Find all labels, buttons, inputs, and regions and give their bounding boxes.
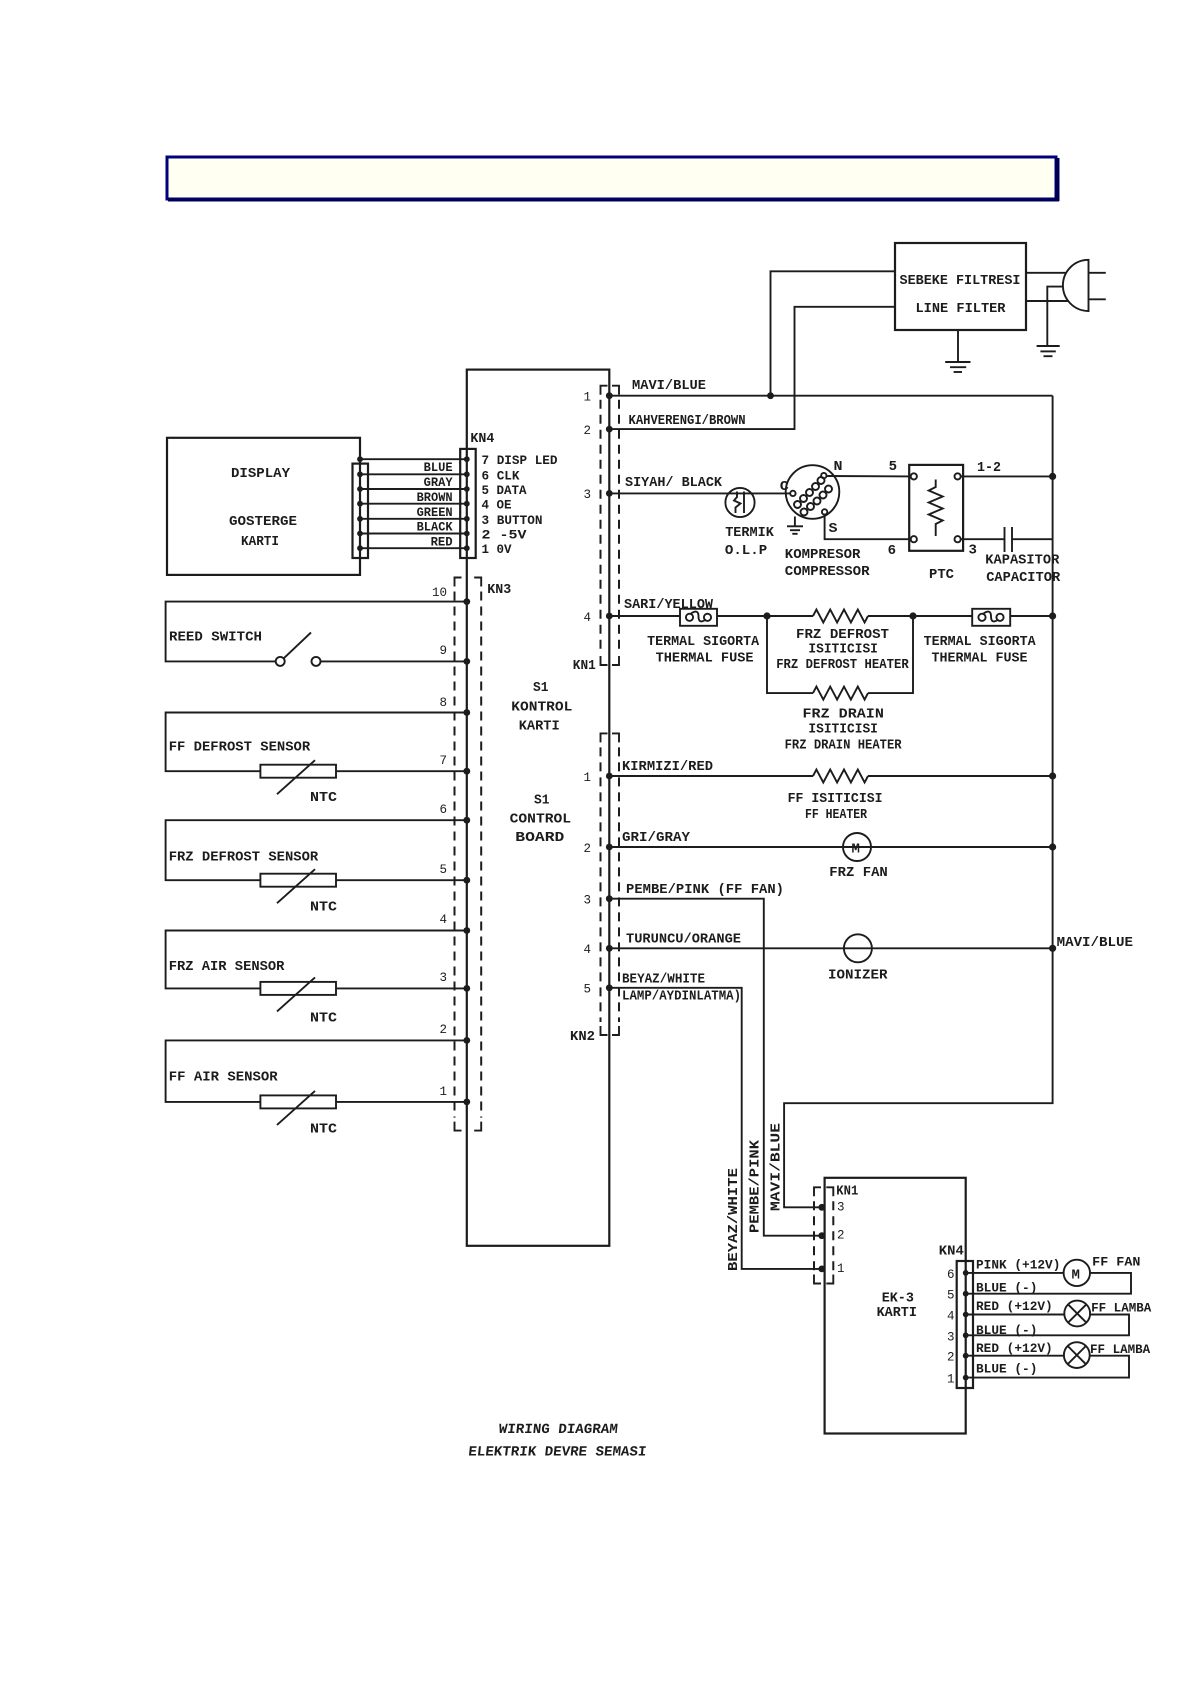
svg-text:3 BUTTON: 3 BUTTON bbox=[482, 513, 543, 528]
display output connector bbox=[353, 464, 369, 558]
svg-text:ISITICISI: ISITICISI bbox=[808, 642, 878, 658]
svg-text:WIRING DIAGRAM: WIRING DIAGRAM bbox=[498, 1422, 619, 1438]
svg-text:6: 6 bbox=[947, 1268, 955, 1282]
connector KN4 box bbox=[460, 449, 476, 558]
svg-text:10: 10 bbox=[432, 586, 447, 600]
svg-text:TERMAL SIGORTA: TERMAL SIGORTA bbox=[647, 634, 760, 650]
wire SIYAH/BLACK pin3 to compressor C bbox=[609, 492, 790, 494]
resistor FRZ DRAIN ISITICISI bbox=[785, 687, 903, 754]
svg-text:9: 9 bbox=[439, 644, 447, 658]
svg-text:ISITICISI: ISITICISI bbox=[808, 722, 878, 738]
wire display pin2 bbox=[360, 533, 467, 535]
svg-text:TURUNCU/ORANGE: TURUNCU/ORANGE bbox=[626, 932, 741, 948]
svg-text:1: 1 bbox=[583, 771, 591, 785]
node rail orange bbox=[1049, 945, 1056, 952]
svg-text:5: 5 bbox=[947, 1289, 955, 1303]
svg-text:C: C bbox=[780, 479, 790, 495]
wire FRZ drain heater branch bbox=[767, 616, 913, 693]
svg-text:8: 8 bbox=[439, 696, 447, 710]
node heater left bbox=[763, 612, 770, 619]
svg-text:FRZ DEFROST HEATER: FRZ DEFROST HEATER bbox=[776, 657, 909, 673]
svg-text:S1: S1 bbox=[533, 680, 549, 696]
svg-text:3: 3 bbox=[947, 1330, 955, 1344]
wire display pin1 RED bbox=[360, 547, 467, 549]
node rail yellow bbox=[1049, 612, 1056, 619]
svg-text:M: M bbox=[1072, 1267, 1080, 1283]
svg-text:RED (+12V): RED (+12V) bbox=[976, 1299, 1053, 1314]
svg-text:2 -5V: 2 -5V bbox=[482, 528, 527, 543]
wire RED +12V to FF lamba 1 bbox=[966, 1314, 1065, 1316]
svg-text:GRAY: GRAY bbox=[424, 475, 453, 490]
KN3 pin numbers bbox=[432, 586, 447, 1099]
thermal fuse 2 bbox=[924, 609, 1037, 667]
connector KN1 EK3 dashed bracket bbox=[814, 1187, 833, 1283]
svg-text:TERMIK: TERMIK bbox=[725, 525, 774, 541]
ground under plug bbox=[1037, 346, 1060, 356]
svg-text:PTC: PTC bbox=[929, 567, 955, 583]
compressor motor bbox=[780, 459, 870, 580]
svg-text:O.L.P: O.L.P bbox=[725, 543, 767, 559]
svg-text:BLUE (-): BLUE (-) bbox=[976, 1323, 1037, 1338]
svg-text:1: 1 bbox=[837, 1262, 845, 1276]
FRZ defrost sensor bbox=[166, 820, 467, 916]
svg-text:BLACK: BLACK bbox=[417, 520, 453, 535]
wire GRI/GRAY pin2 bbox=[609, 846, 1052, 848]
node rail red bbox=[1049, 772, 1056, 779]
svg-text:4: 4 bbox=[439, 913, 447, 927]
svg-text:KN4: KN4 bbox=[939, 1244, 964, 1260]
ground under line filter bbox=[945, 330, 970, 372]
capacitor KAPASITOR bbox=[985, 527, 1060, 586]
wire FF lamba 2 return bbox=[966, 1356, 1129, 1378]
svg-text:TERMAL SIGORTA: TERMAL SIGORTA bbox=[924, 634, 1037, 650]
svg-text:2: 2 bbox=[583, 842, 591, 856]
svg-text:KARTI: KARTI bbox=[241, 534, 279, 550]
svg-text:FF HEATER: FF HEATER bbox=[805, 807, 867, 823]
connector KN1 dashed bracket bbox=[601, 386, 620, 665]
svg-text:FF DEFROST SENSOR: FF DEFROST SENSOR bbox=[169, 740, 311, 756]
svg-text:KAHVERENGI/BROWN: KAHVERENGI/BROWN bbox=[629, 413, 746, 429]
lamp FF LAMBA 2 bbox=[1064, 1342, 1150, 1368]
node blue junction bbox=[767, 392, 774, 399]
connector KN3 dashed bracket bbox=[455, 578, 482, 1131]
ionizer bbox=[828, 934, 888, 983]
wire PEMBE/PINK pin3 to EK3 KN1 pin2 bbox=[609, 899, 822, 1236]
svg-text:IONIZER: IONIZER bbox=[828, 968, 888, 984]
svg-text:GOSTERGE: GOSTERGE bbox=[229, 514, 297, 530]
svg-text:1: 1 bbox=[583, 391, 591, 405]
svg-text:KARTI: KARTI bbox=[519, 719, 560, 735]
FF air sensor bbox=[166, 1040, 467, 1137]
svg-text:5: 5 bbox=[889, 459, 897, 475]
resistor FRZ DEFROST ISITICISI bbox=[776, 610, 909, 674]
svg-text:4: 4 bbox=[583, 943, 591, 957]
svg-text:SIYAH/ BLACK: SIYAH/ BLACK bbox=[625, 475, 723, 491]
svg-text:KN1: KN1 bbox=[573, 658, 596, 674]
svg-text:3: 3 bbox=[837, 1200, 845, 1214]
svg-text:6: 6 bbox=[888, 543, 896, 559]
line filter box bbox=[895, 243, 1026, 330]
svg-text:MAVI/BLUE: MAVI/BLUE bbox=[632, 378, 706, 394]
svg-text:FF LAMBA: FF LAMBA bbox=[1091, 1301, 1151, 1316]
wire fuse1 to node bbox=[717, 615, 813, 617]
motor FRZ FAN bbox=[829, 833, 888, 881]
header bar bbox=[167, 157, 1059, 201]
svg-text:4: 4 bbox=[583, 611, 591, 625]
svg-text:BROWN: BROWN bbox=[417, 490, 453, 505]
connector KN2 dashed bracket bbox=[601, 733, 620, 1035]
svg-text:CAPACITOR: CAPACITOR bbox=[986, 570, 1061, 586]
svg-text:FRZ FAN: FRZ FAN bbox=[829, 865, 888, 881]
svg-text:BLUE (-): BLUE (-) bbox=[976, 1362, 1037, 1377]
svg-text:ELEKTRIK DEVRE SEMASI: ELEKTRIK DEVRE SEMASI bbox=[467, 1445, 647, 1461]
wire display pin5 BROWN bbox=[360, 488, 467, 490]
svg-text:3: 3 bbox=[583, 488, 591, 502]
svg-text:LAMP/AYDINLATMA): LAMP/AYDINLATMA) bbox=[622, 989, 741, 1005]
svg-text:KAPASITOR: KAPASITOR bbox=[985, 553, 1060, 569]
svg-text:BOARD: BOARD bbox=[515, 830, 564, 846]
overload protector TERMIK O.L.P bbox=[725, 488, 775, 559]
svg-text:PEMBE/PINK (FF FAN): PEMBE/PINK (FF FAN) bbox=[626, 882, 784, 898]
KN4 EK3 pins bbox=[963, 1270, 969, 1381]
svg-text:N: N bbox=[834, 459, 843, 475]
svg-text:THERMAL FUSE: THERMAL FUSE bbox=[656, 651, 754, 667]
svg-text:1 0V: 1 0V bbox=[482, 542, 512, 557]
wire display pin3 BLACK bbox=[360, 518, 467, 520]
KN4 EK3 pin numbers bbox=[947, 1268, 955, 1387]
control board label S1 CONTROL BOARD bbox=[510, 793, 571, 846]
wire SARI/YELLOW pin4 bbox=[609, 615, 680, 617]
svg-text:KN1: KN1 bbox=[836, 1184, 858, 1200]
svg-text:FF AIR SENSOR: FF AIR SENSOR bbox=[169, 1070, 278, 1086]
wire KIRMIZI/RED pin1 bbox=[609, 775, 813, 777]
svg-text:2: 2 bbox=[947, 1351, 955, 1365]
wire PTC pin3 to capacitor bbox=[961, 538, 1005, 540]
svg-text:RED: RED bbox=[431, 534, 453, 549]
wire line filter to plug upper bbox=[1026, 272, 1067, 274]
svg-text:FRZ DEFROST SENSOR: FRZ DEFROST SENSOR bbox=[169, 850, 319, 866]
svg-text:4 OE: 4 OE bbox=[482, 498, 512, 513]
wire fuse2 to rail bbox=[1010, 615, 1052, 617]
PTC relay bbox=[888, 459, 1001, 583]
svg-text:6 CLK: 6 CLK bbox=[482, 468, 520, 483]
wire display pin4 GREEN bbox=[360, 503, 467, 505]
wire plug earth tap bbox=[1047, 287, 1063, 346]
wire FF fan return bbox=[966, 1273, 1131, 1294]
svg-text:FRZ DRAIN HEATER: FRZ DRAIN HEATER bbox=[785, 738, 903, 754]
wire FF lamba 1 return bbox=[966, 1315, 1129, 1336]
wire MAVI/BLUE pin1 to right rail bbox=[609, 395, 1052, 397]
svg-text:FRZ AIR SENSOR: FRZ AIR SENSOR bbox=[169, 959, 285, 975]
svg-text:SEBEKE FILTRESI: SEBEKE FILTRESI bbox=[900, 273, 1021, 289]
thermal fuse 1 bbox=[647, 609, 760, 667]
svg-text:5: 5 bbox=[583, 983, 591, 997]
wire compressor S to PTC pin6 bbox=[825, 515, 911, 540]
svg-text:2: 2 bbox=[583, 424, 591, 438]
FF defrost sensor bbox=[166, 713, 467, 807]
KN2 pin numbers bbox=[583, 771, 591, 997]
svg-text:2: 2 bbox=[439, 1023, 447, 1037]
svg-text:KONTROL: KONTROL bbox=[511, 700, 572, 716]
ground under compressor bbox=[787, 517, 803, 534]
reed switch bbox=[166, 602, 467, 666]
svg-text:MAVI/BLUE: MAVI/BLUE bbox=[769, 1123, 785, 1211]
svg-text:FRZ DRAIN: FRZ DRAIN bbox=[803, 707, 884, 723]
node rail/PTC junction bbox=[1049, 473, 1056, 480]
KN3 pins on board edge bbox=[463, 598, 470, 1105]
mains plug bbox=[1063, 260, 1106, 311]
wire PINK +12V to FF fan bbox=[966, 1272, 1064, 1274]
svg-text:PEMBE/PINK: PEMBE/PINK bbox=[748, 1139, 764, 1233]
KN1 pins bbox=[606, 392, 613, 619]
resistor FF ISITICISI bbox=[788, 770, 883, 824]
svg-text:4: 4 bbox=[947, 1310, 955, 1324]
control board S1 box bbox=[467, 370, 610, 1246]
svg-text:KN4: KN4 bbox=[470, 431, 494, 447]
svg-text:1: 1 bbox=[947, 1373, 955, 1387]
wire blue riser to line filter bbox=[771, 271, 896, 395]
svg-text:M: M bbox=[852, 842, 860, 858]
svg-text:DISPLAY: DISPLAY bbox=[231, 466, 291, 482]
wire PTC to right rail top bbox=[961, 475, 1053, 477]
svg-text:3: 3 bbox=[969, 543, 977, 559]
svg-text:KARTI: KARTI bbox=[877, 1305, 917, 1321]
svg-text:KIRMIZI/RED: KIRMIZI/RED bbox=[622, 759, 713, 775]
svg-text:NTC: NTC bbox=[310, 900, 338, 916]
wire compressor N to PTC pin5 bbox=[827, 475, 911, 477]
svg-text:KN2: KN2 bbox=[570, 1029, 595, 1045]
KN1 pin numbers bbox=[583, 391, 591, 626]
svg-text:REED SWITCH: REED SWITCH bbox=[169, 630, 262, 646]
svg-text:KN3: KN3 bbox=[487, 582, 511, 598]
svg-text:1: 1 bbox=[439, 1085, 447, 1099]
svg-text:RED (+12V): RED (+12V) bbox=[976, 1341, 1053, 1356]
svg-text:S: S bbox=[829, 521, 838, 537]
svg-text:5 DATA: 5 DATA bbox=[482, 483, 527, 498]
FRZ air sensor bbox=[166, 931, 467, 1027]
svg-text:COMPRESSOR: COMPRESSOR bbox=[785, 564, 870, 580]
control board label S1 KONTROL KARTI bbox=[511, 680, 572, 735]
KN1 EK3 pins bbox=[818, 1204, 825, 1272]
svg-text:CONTROL: CONTROL bbox=[510, 812, 571, 828]
svg-text:1-2: 1-2 bbox=[977, 460, 1001, 476]
wire TURUNCU/ORANGE pin4 bbox=[609, 947, 1052, 949]
svg-text:MAVI/BLUE: MAVI/BLUE bbox=[1057, 935, 1133, 951]
svg-text:FF FAN: FF FAN bbox=[1092, 1255, 1140, 1270]
motor FF FAN bbox=[1064, 1255, 1141, 1287]
EK-3 board box bbox=[825, 1178, 966, 1434]
wire display pin7 BLUE bbox=[360, 458, 467, 460]
svg-text:LINE FILTER: LINE FILTER bbox=[916, 301, 1007, 317]
svg-text:5: 5 bbox=[439, 863, 447, 877]
svg-text:3: 3 bbox=[439, 971, 447, 985]
svg-text:BLUE: BLUE bbox=[424, 460, 453, 475]
KN1 EK3 pin numbers bbox=[837, 1200, 845, 1276]
wire heater to right node bbox=[868, 615, 972, 617]
svg-text:NTC: NTC bbox=[310, 1122, 338, 1138]
svg-text:BLUE (-): BLUE (-) bbox=[976, 1281, 1037, 1296]
svg-text:2: 2 bbox=[837, 1229, 845, 1243]
svg-text:3: 3 bbox=[583, 894, 591, 908]
node rail gray bbox=[1049, 843, 1056, 850]
wire right rail bbox=[784, 396, 1053, 1208]
KN2 pins bbox=[606, 773, 613, 992]
display board box bbox=[167, 438, 360, 575]
KN4 pins bbox=[464, 456, 470, 551]
svg-text:BEYAZ/WHITE: BEYAZ/WHITE bbox=[726, 1168, 742, 1271]
lamp FF LAMBA 1 bbox=[1064, 1301, 1151, 1327]
wire BEYAZ/WHITE pin5 to EK3 KN1 pin1 bbox=[609, 988, 822, 1269]
svg-text:SARI/YELLOW: SARI/YELLOW bbox=[624, 597, 714, 613]
svg-text:KOMPRESOR: KOMPRESOR bbox=[785, 547, 861, 563]
svg-text:BEYAZ/WHITE: BEYAZ/WHITE bbox=[622, 972, 705, 988]
svg-text:7 DISP LED: 7 DISP LED bbox=[482, 453, 558, 468]
svg-text:7: 7 bbox=[439, 754, 447, 768]
svg-text:NTC: NTC bbox=[310, 790, 338, 806]
svg-text:FF ISITICISI: FF ISITICISI bbox=[788, 791, 883, 807]
node heater right bbox=[909, 612, 916, 619]
wire line filter to plug lower bbox=[1026, 300, 1069, 302]
svg-text:THERMAL FUSE: THERMAL FUSE bbox=[932, 651, 1028, 667]
title text WIRING DIAGRAM bbox=[467, 1422, 649, 1461]
svg-text:NTC: NTC bbox=[310, 1011, 338, 1027]
wire RED +12V to FF lamba 2 bbox=[966, 1355, 1064, 1357]
display connector pins bbox=[357, 456, 363, 551]
wire display pin6 GRAY bbox=[360, 473, 467, 475]
svg-text:GRI/GRAY: GRI/GRAY bbox=[622, 830, 691, 846]
svg-text:PINK (+12V): PINK (+12V) bbox=[976, 1258, 1060, 1273]
svg-text:6: 6 bbox=[439, 803, 447, 817]
wire KAHVERENGI/BROWN pin2 to line filter bbox=[609, 307, 895, 429]
svg-text:GREEN: GREEN bbox=[417, 505, 453, 520]
svg-text:S1: S1 bbox=[534, 793, 550, 809]
connector KN4 EK3 box bbox=[957, 1261, 973, 1388]
